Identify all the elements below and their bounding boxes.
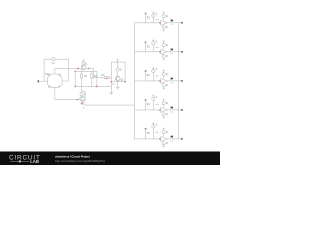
svg-text:http://circuitlab.com/c/gb45a8: http://circuitlab.com/c/gb45a898p87g bbox=[55, 159, 105, 163]
ground G3 bbox=[80, 101, 84, 105]
current source I13 bbox=[162, 25, 168, 29]
transistor Q3 bbox=[80, 96, 84, 101]
probe label OUT1 bbox=[170, 20, 174, 27]
VCC arrow 5b bbox=[163, 128, 165, 130]
VEE arrow 3 bbox=[163, 87, 165, 89]
VCC arrow 4a bbox=[152, 95, 154, 98]
svg-text:1m: 1m bbox=[155, 19, 158, 21]
wire flag 4 to input bbox=[145, 101, 147, 110]
VCC arrow 1a bbox=[152, 11, 154, 14]
VCC arrow 1b bbox=[163, 11, 165, 13]
wire mid to R3 bbox=[91, 71, 93, 74]
op-amp U1 octagon body bbox=[48, 74, 63, 89]
node N7 red junction bbox=[110, 81, 112, 83]
VCC arrow 3a bbox=[152, 67, 154, 70]
node N6 red junction bbox=[106, 78, 108, 80]
wire flag 1 to input bbox=[145, 14, 147, 23]
wire octagon bottom pin bbox=[55, 87, 80, 99]
footer bar bbox=[0, 152, 220, 166]
node IN1 red junction bbox=[159, 22, 161, 24]
VCC arrow 2b bbox=[163, 40, 165, 42]
ground G2 bbox=[116, 87, 120, 89]
current source I12 bbox=[162, 13, 168, 18]
VCC arrow supply B bbox=[117, 59, 119, 62]
current source I22 bbox=[162, 42, 168, 47]
svg-text:1m: 1m bbox=[155, 132, 158, 134]
svg-text:1m: 1m bbox=[155, 47, 158, 49]
wire source 31 to input bbox=[152, 73, 154, 81]
wire source 32 to op-amp bbox=[163, 76, 165, 79]
wire op-amp 2 output bbox=[167, 51, 182, 53]
VCC arrow 2a bbox=[152, 39, 154, 42]
wire source 21 to input bbox=[152, 45, 154, 52]
probe label OUT3 bbox=[170, 78, 174, 85]
wire output bus bbox=[178, 23, 180, 139]
svg-text:chambersa / Circuit Project: chambersa / Circuit Project bbox=[55, 154, 90, 158]
VEE arrow 1 bbox=[163, 29, 165, 31]
input terminal dot bbox=[38, 80, 40, 82]
current source I33 bbox=[162, 83, 168, 87]
wire source 12 to op-amp bbox=[163, 18, 165, 21]
node IN4 red junction bbox=[159, 109, 161, 111]
current source I2 bbox=[116, 62, 122, 76]
node N8 red junction bbox=[124, 81, 126, 83]
wire mid rail bbox=[75, 70, 97, 72]
svg-text:1m: 1m bbox=[155, 76, 158, 78]
wire collector loop bbox=[82, 92, 86, 101]
wire rail to I3 bbox=[81, 86, 83, 92]
op-amp A4 bbox=[161, 108, 168, 113]
node dot output 1 bbox=[181, 22, 183, 24]
wire mid to bottom right bbox=[96, 71, 98, 86]
wire V1 right lead bbox=[55, 59, 69, 81]
transistor Q2 bbox=[112, 76, 124, 86]
current source I23 bbox=[162, 54, 168, 58]
node N1 red junction bbox=[77, 68, 79, 70]
wire flag 3 to input bbox=[145, 72, 147, 81]
wire terminal to octagon bbox=[39, 80, 48, 82]
op-amp A5 bbox=[161, 137, 168, 142]
op-amp A1 bbox=[161, 20, 168, 25]
wire source 41 to input bbox=[152, 100, 154, 110]
transistor Q1 bbox=[81, 64, 85, 69]
wire V1 left lead bbox=[44, 59, 52, 81]
VEE arrow 2 bbox=[163, 58, 165, 60]
resistor R4 bbox=[94, 75, 112, 79]
current source I3 bbox=[80, 93, 86, 96]
resistor R2 bbox=[81, 74, 88, 87]
current source I42 bbox=[162, 100, 168, 105]
current source I51 bbox=[152, 125, 158, 129]
wire op-amp 4 output bbox=[167, 109, 182, 111]
node dot output 2 bbox=[181, 51, 183, 53]
node N3 red junction bbox=[74, 71, 76, 73]
wire source 11 to input bbox=[152, 17, 154, 23]
wire Q2 emitter bbox=[117, 81, 119, 87]
svg-text:1m: 1m bbox=[155, 104, 158, 106]
current source I52 bbox=[162, 129, 168, 134]
wire bottom rail bbox=[75, 85, 111, 87]
current source I11 bbox=[152, 14, 158, 18]
node N5 red junction bbox=[96, 86, 98, 88]
wire stage 4 input bbox=[135, 109, 161, 111]
wire op-amp 3 output bbox=[167, 80, 182, 82]
wire Q3 output to bus bbox=[84, 104, 135, 106]
svg-text:LAB: LAB bbox=[30, 159, 39, 164]
current source I21 bbox=[152, 41, 158, 45]
current source I41 bbox=[152, 97, 158, 101]
current source I53 bbox=[162, 141, 168, 145]
node flag F3 bbox=[144, 70, 146, 72]
wire octagon top pin bbox=[55, 68, 81, 74]
wire input bus bbox=[134, 23, 136, 139]
current source I32 bbox=[162, 71, 168, 76]
wire Q3 emitter to output bbox=[83, 101, 85, 105]
op-amp A2 bbox=[161, 49, 168, 54]
node dot output 5 bbox=[181, 138, 183, 140]
svg-text:v-: v- bbox=[58, 86, 60, 89]
wire flag 5 to input bbox=[145, 130, 147, 139]
VCC arrow 3b bbox=[163, 70, 165, 72]
node flag F4 bbox=[144, 99, 146, 101]
current source I31 bbox=[152, 69, 158, 73]
wire source 22 to op-amp bbox=[163, 47, 165, 50]
op-amp A3 bbox=[161, 79, 168, 84]
wire stage 2 input bbox=[135, 51, 161, 53]
VCC arrow supply A bbox=[82, 59, 84, 62]
supply loop column B bbox=[111, 62, 125, 82]
node dot output 3 bbox=[181, 80, 183, 82]
wire Q1 collector branch bbox=[86, 68, 94, 77]
voltage source V1 bbox=[52, 58, 55, 65]
wire stage 5 input bbox=[135, 138, 161, 140]
node N2 red junction bbox=[88, 68, 90, 70]
node IN5 red junction bbox=[159, 138, 161, 140]
node dot output 4 bbox=[181, 109, 183, 111]
wire stage 3 input bbox=[135, 80, 161, 82]
wire op-amp 1 output bbox=[167, 22, 182, 24]
wire Q1 emitter down bbox=[82, 69, 85, 74]
wire stage 1 input bbox=[135, 22, 161, 24]
node flag F2 bbox=[144, 42, 146, 44]
VCC arrow 4b bbox=[163, 99, 165, 101]
current source I1 bbox=[82, 62, 88, 65]
node flag F1 bbox=[144, 13, 146, 15]
wire op-amp 5 output bbox=[167, 138, 182, 140]
svg-text:1V: 1V bbox=[52, 63, 55, 65]
resistor R3 bbox=[91, 74, 98, 87]
wire source 42 to op-amp bbox=[163, 105, 165, 108]
probe label OUT4 bbox=[170, 107, 174, 114]
VEE arrow 5 bbox=[163, 145, 165, 147]
probe label OUT5 bbox=[170, 136, 174, 143]
node N9 red junction bbox=[77, 99, 79, 101]
probe label OUT2 bbox=[170, 49, 174, 56]
node IN3 red junction bbox=[159, 80, 161, 82]
wire flag 2 to input bbox=[145, 43, 147, 52]
VCC arrow 5a bbox=[152, 122, 154, 125]
node N10 red junction bbox=[81, 103, 83, 105]
wire mid to bottom left bbox=[74, 71, 76, 86]
ground G1 bbox=[110, 93, 114, 95]
node N4 red junction bbox=[74, 86, 76, 88]
node flag F5 bbox=[144, 128, 146, 130]
current source I43 bbox=[162, 112, 168, 116]
node IN2 red junction bbox=[159, 51, 161, 53]
wire source 52 to op-amp bbox=[163, 134, 165, 137]
wire source 51 to input bbox=[152, 128, 154, 139]
wire to ground G1 bbox=[110, 82, 112, 93]
VEE arrow 4 bbox=[163, 116, 165, 118]
